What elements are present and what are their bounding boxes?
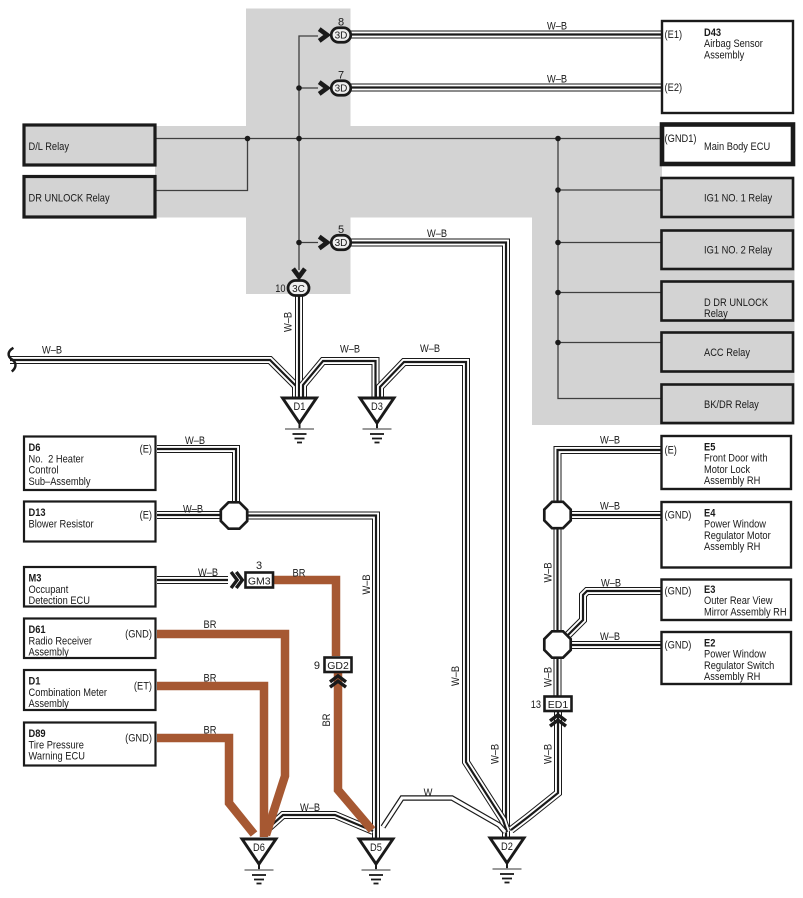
svg-text:BR: BR <box>204 673 217 685</box>
junction junction D6/D13 <box>221 502 247 528</box>
svg-text:(GND): (GND) <box>665 640 692 652</box>
node junction D <box>296 240 302 246</box>
svg-text:Assembly: Assembly <box>704 49 745 61</box>
component E3 <box>662 580 792 621</box>
svg-text:D1: D1 <box>29 676 41 688</box>
svg-text:Regulator Motor: Regulator Motor <box>704 530 771 542</box>
svg-text:W–B: W–B <box>183 504 203 516</box>
svg-text:Regulator Switch: Regulator Switch <box>704 660 774 672</box>
svg-text:E2: E2 <box>704 638 715 650</box>
wire to D DR UNLOCK <box>558 292 661 294</box>
connector connector 3D pin 8 <box>331 17 351 43</box>
component E5 <box>662 436 792 489</box>
svg-text:7: 7 <box>338 70 344 82</box>
node junction C <box>296 136 302 142</box>
svg-text:3C: 3C <box>292 284 305 295</box>
component M3 <box>24 567 156 607</box>
connector 3C pin 10 <box>275 281 309 296</box>
svg-text:(E): (E) <box>665 445 677 457</box>
component D43 <box>662 21 793 113</box>
svg-text:BR: BR <box>321 714 333 727</box>
relay DR UNLOCK <box>24 177 155 218</box>
svg-text:9: 9 <box>314 660 320 672</box>
wire W-B 3D8 to D43 E1 <box>351 31 663 39</box>
svg-text:W–B: W–B <box>185 435 205 447</box>
svg-text:Detection ECU: Detection ECU <box>29 595 91 607</box>
svg-text:W–B: W–B <box>420 343 440 355</box>
svg-text:E4: E4 <box>704 508 716 520</box>
svg-text:Blower Resistor: Blower Resistor <box>29 518 94 530</box>
svg-text:W–B: W–B <box>450 666 462 686</box>
relay IG1 NO.1 <box>662 178 794 217</box>
gray harness area behind relays <box>662 178 795 425</box>
wire relay bus vertical to BK/DR <box>558 139 661 399</box>
junction junction E5/E4 <box>544 502 570 528</box>
svg-text:(E1): (E1) <box>665 29 683 41</box>
ground D2 <box>490 838 524 883</box>
svg-text:W–B: W–B <box>543 667 555 687</box>
svg-text:Radio Receiver: Radio Receiver <box>29 635 93 647</box>
node junction G <box>555 240 561 246</box>
svg-text:(GND1): (GND1) <box>665 133 697 145</box>
svg-text:Front Door with: Front Door with <box>704 453 768 465</box>
svg-text:W–B: W–B <box>198 567 218 579</box>
wire W-B ED1 to D2 <box>511 710 558 830</box>
svg-text:IG1 NO. 1 Relay: IG1 NO. 1 Relay <box>704 193 773 205</box>
gray harness area right <box>532 126 662 425</box>
svg-text:Airbag Sensor: Airbag Sensor <box>704 38 763 50</box>
svg-text:5: 5 <box>338 224 344 236</box>
svg-text:Sub–Assembly: Sub–Assembly <box>29 476 91 488</box>
svg-text:W–B: W–B <box>543 744 555 764</box>
arrow into ED1 <box>550 715 566 726</box>
svg-text:13: 13 <box>531 699 541 711</box>
svg-text:W–B: W–B <box>361 574 373 594</box>
svg-text:D/L Relay: D/L Relay <box>29 141 70 153</box>
relay IG1 NO.2 <box>662 231 794 270</box>
svg-text:D13: D13 <box>29 507 46 519</box>
svg-text:W–B: W–B <box>547 74 567 86</box>
svg-text:D1: D1 <box>294 401 306 413</box>
wire W-B 3D5 down to D2 <box>351 243 507 839</box>
svg-text:BR: BR <box>293 568 306 580</box>
wire BR GD2 to D5 <box>338 671 372 830</box>
wire W-B D6 to junction <box>157 449 236 503</box>
svg-text:Combination Meter: Combination Meter <box>29 687 108 699</box>
arrow into GD2 <box>330 676 346 687</box>
svg-text:Assembly RH: Assembly RH <box>704 671 760 683</box>
ground D3 <box>360 398 394 443</box>
svg-text:Outer Rear View: Outer Rear View <box>704 595 773 607</box>
relay BK/DR <box>662 385 794 424</box>
connector GM3 pin 3 <box>246 560 274 588</box>
component D13 <box>24 502 156 542</box>
wire relay bus horizontal <box>155 138 662 140</box>
connector GD2 pin 9 <box>314 658 352 673</box>
component D89 <box>24 723 156 766</box>
wire to 3D pin 5 <box>299 242 318 244</box>
svg-text:IG1 NO. 2 Relay: IG1 NO. 2 Relay <box>704 245 773 257</box>
svg-text:D2: D2 <box>501 841 513 853</box>
svg-text:3D: 3D <box>335 238 348 249</box>
wire DR UNLOCK relay link <box>155 139 248 191</box>
svg-text:GD2: GD2 <box>327 660 349 672</box>
svg-text:W–B: W–B <box>490 744 502 764</box>
node junction I <box>555 340 561 346</box>
wire BR D61 to D6 <box>157 634 285 835</box>
svg-text:W–B: W–B <box>543 562 555 582</box>
svg-text:D5: D5 <box>370 842 382 854</box>
wire W-B D3 to D2 <box>380 362 507 832</box>
break symbol <box>9 348 16 372</box>
wire BR GM3 to GD2 <box>273 580 336 656</box>
svg-text:D6: D6 <box>253 842 265 854</box>
svg-text:W: W <box>424 787 433 799</box>
component D1 <box>24 670 156 710</box>
svg-text:3D: 3D <box>335 84 348 95</box>
svg-text:Mirror Assembly RH: Mirror Assembly RH <box>704 606 787 618</box>
svg-text:Power Window: Power Window <box>704 519 766 531</box>
junction junction E3/E2 <box>544 631 570 657</box>
svg-text:W–B: W–B <box>283 312 295 332</box>
ground D5 <box>359 839 393 884</box>
svg-text:Tire Pressure: Tire Pressure <box>29 739 84 751</box>
svg-text:No. 2 Heater: No. 2 Heater <box>29 453 85 465</box>
svg-text:W–B: W–B <box>42 345 62 357</box>
arrow into 3D pin 5 <box>319 237 327 249</box>
svg-text:W–B: W–B <box>600 501 620 513</box>
node junction H <box>555 290 561 296</box>
svg-text:3: 3 <box>256 560 262 572</box>
svg-text:W–B: W–B <box>547 21 567 33</box>
component E2 <box>662 632 792 684</box>
wire BR D89 to D6 <box>157 738 254 834</box>
svg-text:BR: BR <box>204 619 217 631</box>
svg-text:BK/DR Relay: BK/DR Relay <box>704 399 759 411</box>
relay D/L <box>24 125 155 165</box>
wire to IG1 NO.1 <box>558 189 661 191</box>
relay D DR UNLOCK <box>662 282 794 321</box>
svg-text:D3: D3 <box>371 401 383 413</box>
arrow into GM3 <box>231 572 242 588</box>
svg-text:(E): (E) <box>140 510 152 522</box>
wire BR D1 to D6 <box>157 686 264 837</box>
svg-text:Warning ECU: Warning ECU <box>29 751 85 763</box>
ground D6 <box>242 839 276 884</box>
svg-text:GM3: GM3 <box>248 576 271 588</box>
svg-text:Motor Lock: Motor Lock <box>704 464 750 476</box>
node junction B <box>296 85 302 91</box>
svg-text:W–B: W–B <box>340 344 360 356</box>
svg-text:Power Window: Power Window <box>704 649 766 661</box>
wire W-B left to D1 <box>10 360 296 398</box>
svg-text:D61: D61 <box>29 624 46 636</box>
svg-text:10: 10 <box>275 283 285 295</box>
svg-text:8: 8 <box>338 17 344 29</box>
connector ED1 pin 13 <box>531 697 572 712</box>
wire to 3D pin 8 <box>299 36 318 270</box>
svg-text:W–B: W–B <box>427 228 447 240</box>
svg-text:Control: Control <box>29 465 59 477</box>
svg-text:(GND): (GND) <box>125 629 152 641</box>
svg-text:Assembly RH: Assembly RH <box>704 541 760 553</box>
wire W-B 3D7 to D43 E2 <box>351 84 663 92</box>
svg-text:BR: BR <box>204 725 217 737</box>
svg-text:Assembly: Assembly <box>29 698 70 710</box>
connector connector 3D pin 7 <box>331 70 351 96</box>
component D61 <box>24 619 156 659</box>
svg-text:(E): (E) <box>140 444 152 456</box>
svg-text:D43: D43 <box>704 27 721 39</box>
wire to ACC <box>558 342 661 344</box>
svg-text:E5: E5 <box>704 442 715 454</box>
connector connector 3D pin 5 <box>331 224 351 250</box>
wire W-B D6 to D5 <box>264 815 373 832</box>
wire W-B junction2 to E2 <box>571 641 662 649</box>
svg-text:Assembly: Assembly <box>29 647 70 659</box>
component Main Body ECU <box>662 125 793 165</box>
svg-text:W–B: W–B <box>601 578 621 590</box>
wire W D5 to D2 <box>383 798 505 832</box>
svg-text:(ET): (ET) <box>134 681 152 693</box>
svg-text:ED1: ED1 <box>548 699 569 711</box>
wire W-B D1 to D3 <box>303 361 376 398</box>
component E4 <box>662 502 792 568</box>
svg-text:Occupant: Occupant <box>29 584 69 596</box>
svg-text:D DR UNLOCK: D DR UNLOCK <box>704 297 769 309</box>
svg-text:Main Body ECU: Main Body ECU <box>704 141 770 153</box>
component D6 <box>24 437 156 491</box>
svg-text:DR UNLOCK Relay: DR UNLOCK Relay <box>29 193 111 205</box>
wire W-B junction to D5 <box>246 516 376 839</box>
svg-text:D89: D89 <box>29 728 46 740</box>
wire to 3D pin 7 <box>299 87 318 89</box>
wire W-B 3C to D1 <box>295 296 303 398</box>
node junction E <box>555 136 561 142</box>
node junction F <box>555 187 561 193</box>
svg-text:Assembly RH: Assembly RH <box>704 475 760 487</box>
wire to IG1 NO.2 <box>558 242 661 244</box>
relay ACC <box>662 333 794 372</box>
arrow into 3D pin 7 <box>319 82 327 94</box>
wire W-B junction1 to E4 <box>571 511 662 519</box>
svg-text:(GND): (GND) <box>665 586 692 598</box>
wire W-B junction1 to junction2 <box>554 528 562 632</box>
svg-text:(GND): (GND) <box>665 510 692 522</box>
wire W-B junction1 to E5 <box>558 450 663 503</box>
svg-text:3D: 3D <box>335 31 348 42</box>
wire W-B D13 to junction <box>157 511 222 519</box>
gray harness area top <box>246 9 351 295</box>
svg-text:M3: M3 <box>29 573 42 585</box>
node junction A <box>245 136 251 142</box>
svg-text:(E2): (E2) <box>665 82 683 94</box>
svg-text:W–B: W–B <box>600 631 620 643</box>
ground D1 <box>283 398 317 443</box>
wire W-B junction2 to E3 <box>566 591 662 637</box>
arrow into 3C pin 10 <box>293 269 305 277</box>
svg-text:Relay: Relay <box>704 308 728 320</box>
svg-text:ACC Relay: ACC Relay <box>704 347 750 359</box>
svg-text:E3: E3 <box>704 584 715 596</box>
gray harness area middle <box>155 126 662 218</box>
wire W-B M3 to GM3 <box>157 576 228 584</box>
arrow into 3D pin 8 <box>319 29 327 41</box>
wire W-B junction2 to ED1 <box>554 657 562 696</box>
svg-text:W–B: W–B <box>300 802 320 814</box>
svg-text:D6: D6 <box>29 442 41 454</box>
svg-text:W–B: W–B <box>600 435 620 447</box>
svg-text:(GND): (GND) <box>125 733 152 745</box>
